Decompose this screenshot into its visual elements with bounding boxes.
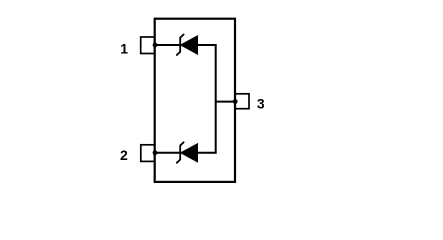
wire D1 anode to common node (198, 44, 216, 46)
pin 2 terminal (141, 145, 155, 162)
zener diode D2 (bottom, cathode left) (177, 142, 198, 163)
junction node pin 1 (153, 43, 158, 48)
junction node pin 2 (153, 150, 158, 155)
zener diode D1 (top, cathode left) (177, 35, 198, 56)
wire pin2 to D2 cathode (155, 152, 181, 154)
wire common node to pin 3 (216, 101, 235, 103)
svg-text:1: 1 (120, 40, 128, 56)
wire D2 anode to common node (198, 152, 216, 154)
wire common vertical (215, 44, 217, 154)
wire pin1 to D1 cathode (155, 44, 181, 46)
svg-text:2: 2 (120, 147, 128, 163)
pin 3 terminal (235, 94, 249, 109)
svg-text:3: 3 (257, 95, 265, 111)
junction node pin 3 (233, 99, 238, 104)
pin 1 terminal (141, 37, 155, 54)
package outline (155, 19, 235, 182)
